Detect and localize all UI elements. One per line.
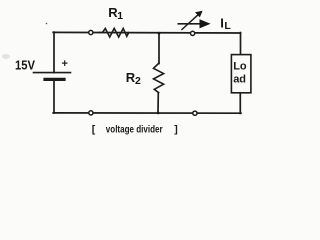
node: open terminal on bottom rail (right) [193,111,197,115]
current arrow diagonal tick with small head [182,11,203,30]
svg-text:ad: ad [233,73,246,85]
node: open terminal on top rail (right) [191,31,195,35]
wire: R2 branch top [158,33,160,64]
junction R2 top [158,32,161,35]
svg-text:]: ] [174,124,178,136]
wire: top rail [53,31,240,34]
svg-text:+: + [62,58,68,70]
node: open terminal on bottom rail (left) [89,111,93,115]
wire: R2 branch bottom [157,92,159,113]
speck (scan noise) [46,23,48,25]
current arrow IL (horizontal with solid head) [178,19,210,28]
svg-text:L: L [224,20,231,32]
node: open terminal on top rail (left) [89,30,93,34]
wire: battery bottom to bottom-left corner [53,79,55,113]
svg-text:I: I [220,16,224,31]
svg-text:2: 2 [135,75,141,87]
svg-text:15V: 15V [15,58,36,72]
svg-text:Lo: Lo [233,60,247,72]
svg-text:1: 1 [117,10,123,22]
resistor R2 [154,63,164,93]
svg-text:voltage divider: voltage divider [106,125,163,136]
svg-text:[: [ [92,124,96,136]
wire: battery top to top-left corner [53,32,55,73]
wire: load bottom down to bottom rail [239,93,241,114]
wire: top-right corner down to load [240,33,242,55]
battery 15V [34,73,71,80]
resistor R1 [100,28,129,37]
junction R2 bottom [157,112,160,115]
load box U1 [231,55,251,93]
wire: bottom rail [53,112,241,114]
